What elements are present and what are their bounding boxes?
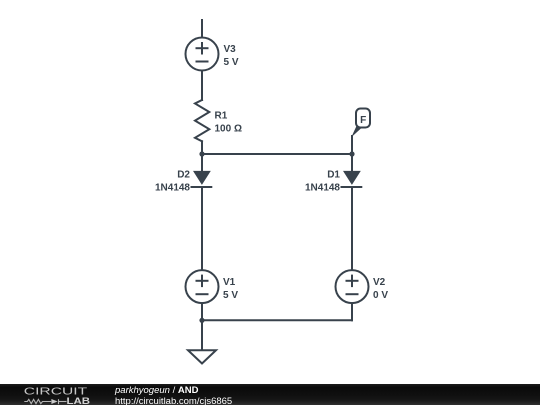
svg-text:100 Ω: 100 Ω [215,124,242,135]
resistor R1 [195,100,209,141]
wire V1 to bottom rail [201,303,203,320]
wire R1 to node F row [201,141,203,154]
CircuitLab logo [14,384,114,405]
label V3 value [224,44,239,68]
label D2 value [155,170,190,194]
wire V2 to bottom rail [351,303,353,320]
svg-text:1N4148: 1N4148 [155,182,190,193]
ground symbol [188,350,216,363]
node junction at R1/D2 [199,151,204,156]
label V2 value [373,277,388,301]
svg-text:V1: V1 [223,277,236,288]
svg-text:F: F [360,115,366,126]
voltage source V2 [336,270,369,303]
svg-text:LAB: LAB [67,396,91,405]
svg-text:D1: D1 [327,170,340,181]
diode D1 [342,154,362,270]
node junction at F/D1 [349,151,354,156]
voltage source V1 [186,270,219,303]
wire V3 to R1 [201,71,203,101]
wire bottom rail [202,319,352,321]
svg-text:1N4148: 1N4148 [305,182,340,193]
svg-text:V2: V2 [373,277,386,288]
wire horizontal node F [202,153,352,155]
svg-text:5 V: 5 V [224,57,239,68]
label D1 value [305,170,340,194]
diode D2 [192,154,212,270]
svg-text:R1: R1 [215,111,228,122]
node junction at bottom rail [199,318,204,323]
flag F [351,109,370,138]
wire flag to node [351,136,353,154]
footer meta text [115,387,232,405]
label V1 value [223,277,238,301]
footer bar [0,384,540,405]
voltage source V3 [186,38,219,71]
wire top stub above V3 [201,20,203,38]
svg-text:0 V: 0 V [373,290,388,301]
svg-text:V3: V3 [224,44,237,55]
svg-text:D2: D2 [177,170,190,181]
wire rail to ground [201,320,203,350]
svg-text:5 V: 5 V [223,290,238,301]
label R1 value [215,111,242,135]
